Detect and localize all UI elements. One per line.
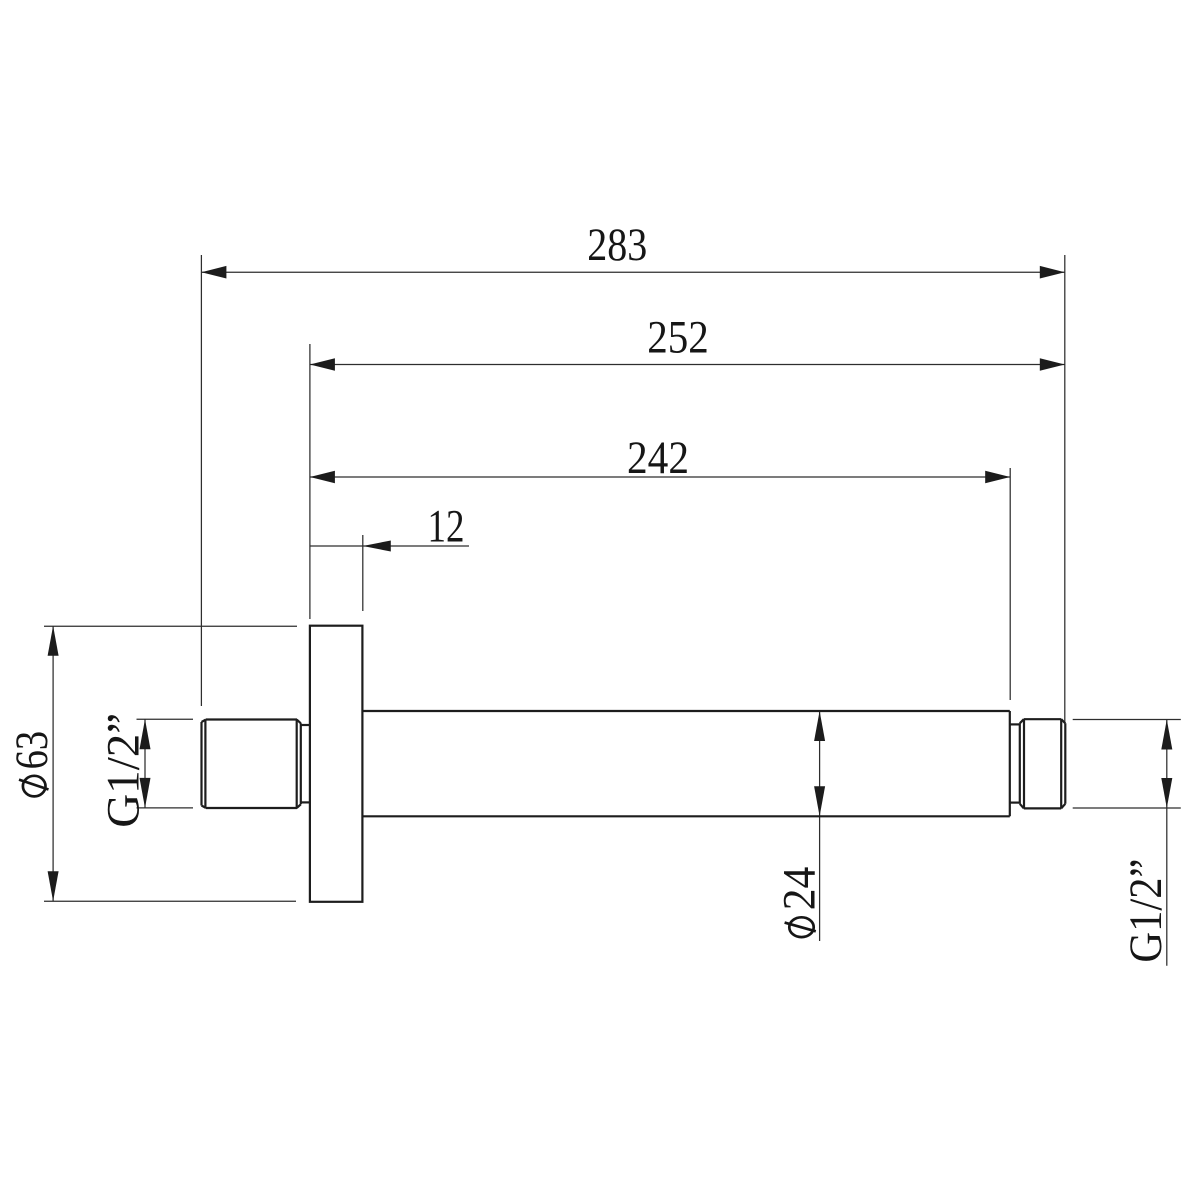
arrow 283 left: [201, 266, 226, 279]
arrow 283 right: [1040, 266, 1065, 279]
dimension line 242: [310, 476, 1010, 478]
svg-text:G1/2”: G1/2”: [98, 713, 150, 828]
dimension line 283: [201, 271, 1064, 273]
svg-text:242: 242: [627, 432, 689, 484]
right thread minor line: [1023, 719, 1025, 808]
svg-text:283: 283: [587, 219, 647, 271]
arrow 252 left: [310, 358, 335, 371]
pipe bottom edge: [362, 815, 1009, 817]
G1/2 left extension line top: [137, 718, 194, 720]
extension line pipe right end (x=1010): [1009, 468, 1011, 700]
phi24 dimension line: [819, 711, 821, 941]
left thread minor line: [204, 720, 206, 809]
svg-text:63: 63: [6, 731, 58, 770]
arrow 242 left: [310, 471, 335, 484]
arrow phi24 down: [814, 786, 825, 816]
arrow G1/2 left up: [140, 719, 151, 749]
arrow phi24 up: [814, 711, 825, 741]
arrow G1/2 left down: [140, 778, 151, 808]
svg-text:252: 252: [647, 312, 709, 364]
left thread relief line: [296, 720, 298, 809]
left thread body outline: [202, 720, 301, 809]
extension line flange right face for 12 dim (x=363): [362, 535, 364, 611]
right thread relief line: [1060, 719, 1062, 808]
right neck top: [1010, 723, 1020, 725]
right thread body outline: [1020, 719, 1066, 808]
phi63 extension line bottom: [44, 900, 296, 902]
G1/2 left dimension line: [144, 719, 146, 808]
arrow phi63 up: [48, 626, 59, 656]
left neck bottom: [301, 801, 310, 803]
extension line right thread face (x=1065): [1064, 255, 1066, 722]
svg-text:G1/2”: G1/2”: [1120, 859, 1172, 963]
arrow phi63 down: [48, 871, 59, 901]
svg-text:24: 24: [774, 867, 826, 911]
arrow 252 right: [1040, 358, 1065, 371]
svg-text:12: 12: [428, 501, 465, 553]
G1/2 right extension line bottom: [1073, 807, 1181, 809]
arrow G1/2 right up: [1161, 720, 1172, 750]
pipe top edge: [362, 710, 1009, 712]
arrow G1/2 right down: [1161, 778, 1172, 808]
right neck bottom: [1010, 801, 1020, 803]
phi63 dimension line: [52, 626, 54, 901]
G1/2 right extension line top: [1073, 719, 1181, 721]
dimension line 252: [310, 364, 1065, 366]
phi symbol of phi24: [785, 917, 816, 937]
arrow 12: [363, 541, 391, 552]
G1/2 left extension line bottom: [137, 807, 194, 809]
extension line left face of thread (x=201): [200, 255, 202, 706]
extension line flange left face (x=310): [309, 344, 311, 619]
flange rectangle: [310, 626, 363, 902]
phi symbol of phi63: [19, 776, 49, 797]
left neck top: [301, 724, 310, 726]
dimension line 12 with tail: [310, 545, 469, 547]
arrow 242 right: [985, 471, 1010, 484]
G1/2 right dimension line: [1166, 720, 1168, 966]
phi63 extension line top: [44, 625, 297, 627]
pipe right end edge: [1009, 711, 1011, 816]
